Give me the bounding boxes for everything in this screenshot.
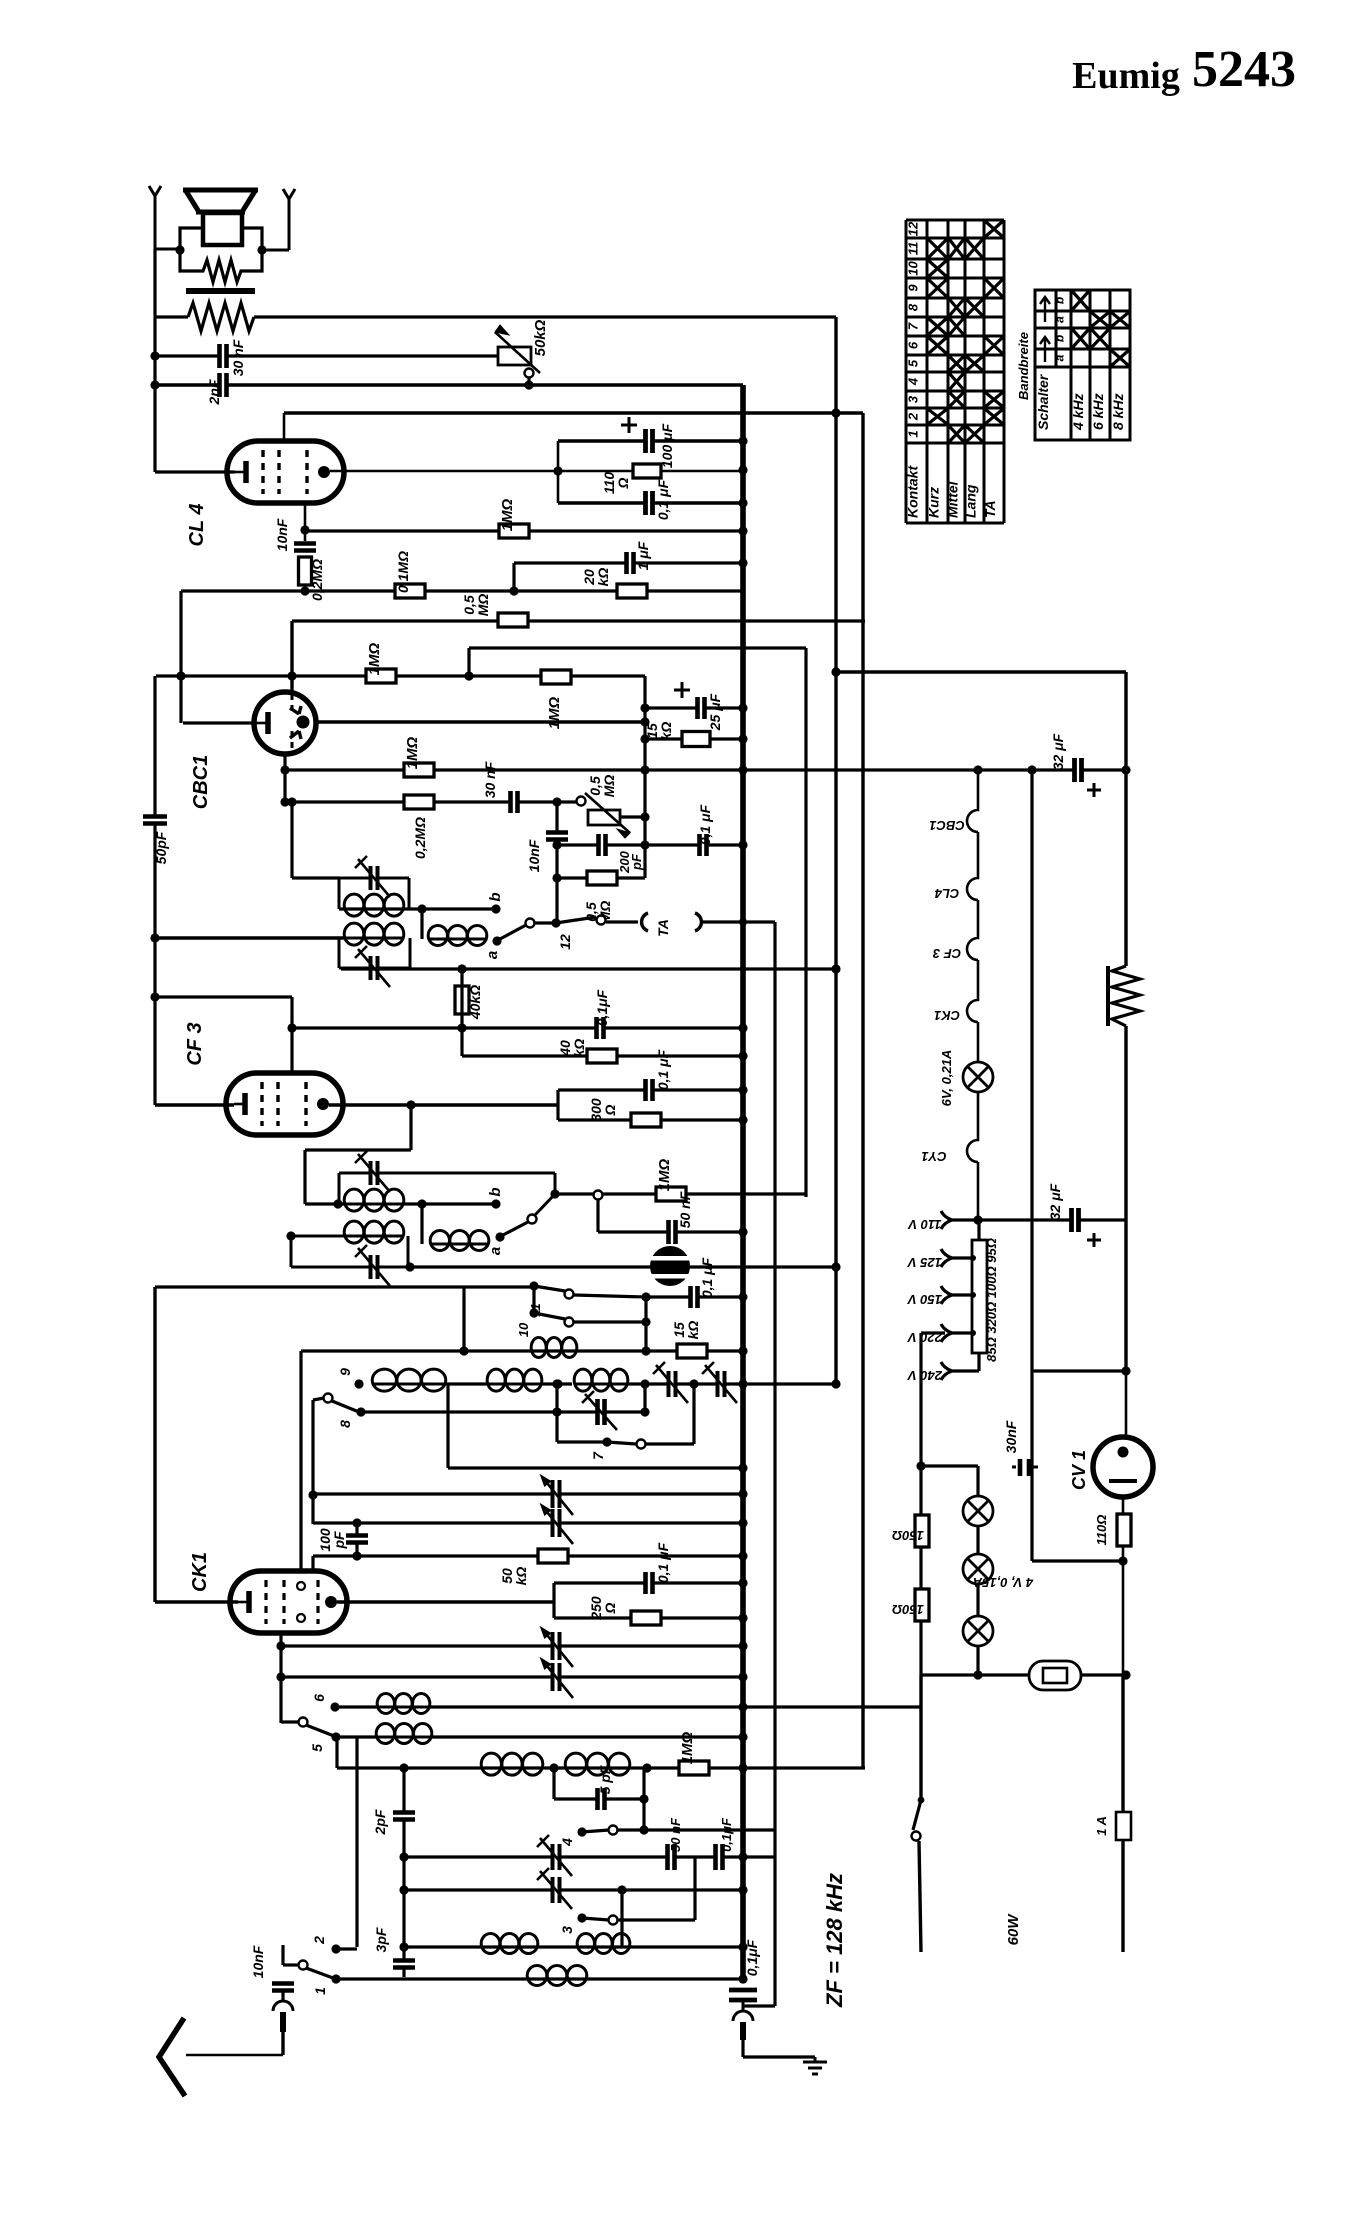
capacitor 0.1uF line1028 <box>596 1016 605 1040</box>
junction x557 y802 <box>552 797 561 806</box>
junction bus y1523 <box>738 1518 747 1527</box>
plus sign 25uF <box>674 682 690 698</box>
CF3 cathode network <box>556 1090 559 1120</box>
wire right rail <box>1124 770 1127 966</box>
wire 100uF branch <box>558 439 743 442</box>
wire antenna lead <box>281 2032 284 2055</box>
svg-text:4: 4 <box>906 377 921 386</box>
IF transformer T2 box <box>338 878 341 909</box>
wire x301 to CK1 <box>299 1351 302 1571</box>
wire grid line y531 <box>305 529 743 532</box>
IF transformer T2 secondary box <box>338 938 341 968</box>
wire line y1412 <box>361 1410 557 1413</box>
wire vertical rail x775 <box>773 922 776 2006</box>
wire mains lead right <box>1121 1840 1124 1952</box>
junction x645 y1412 <box>640 1407 649 1416</box>
variable capacitor tuning 4 plates <box>552 1662 561 1692</box>
wire x464 up <box>462 1287 465 1351</box>
wire left rail lower segment <box>153 1287 156 1602</box>
junction T3 sec left <box>286 1231 295 1240</box>
capacitor 5pF <box>597 1787 606 1811</box>
junction x1032 top <box>1027 765 1036 774</box>
svg-text:10nF: 10nF <box>274 518 290 551</box>
junction x694 y1384 <box>689 1379 698 1388</box>
svg-text:0,1MΩ: 0,1MΩ <box>395 551 411 593</box>
junction x646 y1351 <box>641 1346 650 1355</box>
padder plates <box>597 1398 606 1426</box>
contact 7 lever <box>557 1440 604 1443</box>
junction bus y922 <box>739 918 747 926</box>
svg-text:85Ω 320Ω 100Ω 95Ω: 85Ω 320Ω 100Ω 95Ω <box>984 1238 999 1362</box>
junction bus y770 <box>738 765 747 774</box>
wire x462 <box>460 969 463 1056</box>
svg-text:CK1: CK1 <box>189 1552 211 1592</box>
antenna symbol <box>159 2018 185 2096</box>
svg-text:7: 7 <box>906 322 921 330</box>
svg-text:110 V: 110 V <box>907 1217 941 1232</box>
wire line y1675 <box>921 1673 1126 1676</box>
capacitor 200pF <box>598 833 607 857</box>
junction right rail y1675 <box>1121 1670 1130 1679</box>
svg-text:0,2MΩ: 0,2MΩ <box>412 817 428 859</box>
wire line y1583 <box>554 1581 743 1584</box>
trimmer capacitor osc 2 plates <box>717 1370 726 1398</box>
svg-text:0,1μF: 0,1μF <box>719 1817 734 1852</box>
junction x404 y1768 <box>399 1763 408 1772</box>
svg-text:6: 6 <box>906 341 921 349</box>
svg-text:0,1 μF: 0,1 μF <box>655 479 671 520</box>
svg-text:Ω: Ω <box>602 1602 618 1614</box>
wire line y1979 <box>336 1977 743 1980</box>
junction T3 sec right <box>405 1262 414 1271</box>
contact 11 lever <box>529 1281 538 1290</box>
junction x555 y1194 <box>550 1189 559 1198</box>
resistor 50k osc grid <box>538 1549 568 1563</box>
wire CK1 plate line <box>337 1600 554 1603</box>
wire vertical rail x806 <box>804 648 807 1197</box>
svg-text:12: 12 <box>906 221 921 236</box>
fuse 1A <box>1116 1812 1131 1840</box>
svg-text:5: 5 <box>906 359 921 367</box>
switch lever a-b <box>500 925 526 939</box>
svg-text:b: b <box>487 892 504 901</box>
junction right rail y770 <box>1121 765 1130 774</box>
resistor 150 second <box>915 1589 929 1621</box>
svg-text:CF 3: CF 3 <box>184 1022 206 1065</box>
wire vertical x181 <box>179 591 182 723</box>
coil T3 primary <box>344 1203 404 1206</box>
contact b dot <box>491 904 500 913</box>
table Bandbreite <box>1035 290 1130 440</box>
svg-text:2pF: 2pF <box>372 1809 388 1835</box>
tube CF3 <box>226 1073 343 1135</box>
svg-text:50pF: 50pF <box>153 831 169 864</box>
ground symbol <box>803 2057 827 2074</box>
jack TA right <box>695 913 701 931</box>
junction speaker left <box>175 245 184 254</box>
junction bus y739 <box>738 734 747 743</box>
resistor 110 Ohm <box>633 464 661 478</box>
coil coupling CBC1 <box>428 938 487 941</box>
resistor 15k <box>682 732 710 747</box>
junction 5pF right <box>639 1794 648 1803</box>
speaker terminal right <box>283 189 295 199</box>
svg-text:3pF: 3pF <box>373 1927 389 1952</box>
junction bus y563 <box>738 558 747 567</box>
svg-text:MΩ: MΩ <box>475 594 491 617</box>
svg-text:kΩ: kΩ <box>513 1567 529 1586</box>
wire CF3 grid vertical <box>290 997 293 1073</box>
svg-text:30 nF: 30 nF <box>230 339 246 376</box>
svg-text:kΩ: kΩ <box>685 1321 701 1340</box>
svg-text:0,1μF: 0,1μF <box>594 989 610 1026</box>
svg-text:Mittel: Mittel <box>945 480 961 518</box>
svg-text:5: 5 <box>309 1744 325 1752</box>
contact a dot <box>492 936 501 945</box>
svg-text:1MΩ: 1MΩ <box>366 642 383 675</box>
resistor 40k second <box>587 1049 617 1063</box>
junction bus y531 <box>738 526 747 535</box>
coil coupling CF3 <box>430 1243 489 1246</box>
resistor 40k <box>455 986 469 1014</box>
lamp 6V 0.21A <box>963 1062 993 1092</box>
junction bus y1120 <box>738 1115 747 1124</box>
svg-text:4 kHz: 4 kHz <box>1070 393 1086 431</box>
wire 100pF stub <box>355 1523 358 1556</box>
IF transformer T3 secondary box <box>290 1236 293 1267</box>
capacitor 10nF antenna <box>271 1983 295 1992</box>
svg-text:CK1: CK1 <box>934 1008 960 1023</box>
capacitor 50pF <box>142 816 168 825</box>
junction x646 y1297 <box>641 1292 650 1301</box>
svg-text:a: a <box>1053 316 1067 323</box>
svg-text:Schalter: Schalter <box>1035 373 1051 430</box>
junction bus y1646 <box>738 1641 747 1650</box>
junction bus y1468 <box>738 1463 747 1472</box>
svg-text:3: 3 <box>906 395 921 403</box>
wire 50nF drop <box>596 1200 599 1232</box>
svg-text:0,1 μF: 0,1 μF <box>699 1257 715 1298</box>
resistor 0.1M <box>395 584 425 598</box>
jack TA left <box>642 913 648 931</box>
wire main ground bus <box>740 385 746 1983</box>
speaker LS cone <box>183 190 258 212</box>
trimmer capacitor antenna 1 plates <box>552 1843 561 1871</box>
coil antenna bottom A <box>481 1946 538 1949</box>
svg-text:6 kHz: 6 kHz <box>1090 393 1106 430</box>
coil LW oscillator <box>531 1350 577 1353</box>
tap 220 V <box>941 1324 952 1342</box>
junction x554 y1768 <box>549 1763 558 1772</box>
trimmer capacitor osc 1 plates <box>668 1370 677 1398</box>
wire line y648 <box>469 646 806 649</box>
wire line y672 <box>836 670 1126 673</box>
junction bus y1028 <box>738 1023 747 1032</box>
wire x645 osc <box>643 1384 646 1412</box>
wire to TA jack <box>606 920 638 923</box>
svg-text:kΩ: kΩ <box>595 568 611 587</box>
junction x404 y1857 <box>399 1852 408 1861</box>
svg-text:b: b <box>1053 335 1067 342</box>
junction bus y1768 <box>738 1763 747 1772</box>
contact 6 dot <box>330 1702 339 1711</box>
junction x836 y672 <box>831 667 840 676</box>
svg-text:8 kHz: 8 kHz <box>1110 393 1126 430</box>
coil T3 secondary <box>344 1235 404 1238</box>
wire line to ground bus top <box>155 383 743 386</box>
capacitor 0.1uF AF <box>699 833 708 857</box>
capacitor 0.1uF cathode <box>645 490 654 516</box>
svg-text:a: a <box>484 951 501 959</box>
wire coupling coil 2 drop <box>420 1204 423 1244</box>
junction x645 y739 <box>640 734 649 743</box>
junction x645 y722 <box>640 717 649 726</box>
svg-text:1MΩ: 1MΩ <box>679 1731 696 1764</box>
capacitor 1uF <box>626 551 635 575</box>
svg-text:150 V: 150 V <box>907 1292 942 1307</box>
wire mains switch lower <box>919 1841 921 1952</box>
wire line y1677 <box>281 1675 743 1678</box>
svg-text:Ω: Ω <box>615 477 631 489</box>
output transformer primary winding <box>188 303 254 331</box>
wire line y708 <box>645 706 743 709</box>
junction bus y1890 <box>738 1885 747 1894</box>
wire mains switch upper <box>919 1675 922 1800</box>
wire tone line 30nF <box>155 354 498 357</box>
speaker magnet <box>203 213 242 245</box>
wire x622 <box>620 1890 623 1947</box>
resistor 250 Ohm <box>631 1611 661 1625</box>
resistor 0.5M grid CBC1 <box>587 871 617 885</box>
resistor mains dropper <box>1106 966 1110 1026</box>
wire 0.1uF cathode branch <box>558 501 743 504</box>
svg-text:kΩ: kΩ <box>658 722 674 741</box>
tap 240 V <box>941 1362 952 1380</box>
wire CBC1 cathode <box>183 721 254 724</box>
resistor 150 Ohm upper <box>919 1466 922 1516</box>
resistor 300 Ohm <box>631 1113 661 1127</box>
svg-text:150Ω: 150Ω <box>892 1602 924 1617</box>
table Bandbreite arrows <box>1040 297 1050 322</box>
coil antenna input B <box>565 1767 630 1770</box>
trimmer capacitor T2 primary plates <box>370 865 379 891</box>
svg-text:1: 1 <box>906 430 921 437</box>
junction bus y1737 <box>738 1732 747 1741</box>
plus sign 32uF second <box>1087 1233 1101 1247</box>
capacitor 32uF first <box>1074 757 1083 783</box>
junction x836 y1267 <box>831 1262 840 1271</box>
junction bus y1857 <box>738 1852 747 1861</box>
wire x448 down <box>446 1384 449 1468</box>
junction y1371 <box>1121 1366 1130 1375</box>
svg-text:10: 10 <box>516 1322 531 1337</box>
contact pot wiper <box>525 369 534 378</box>
capacitor 30nF CV1 <box>1018 1459 1023 1476</box>
junction cathode network left <box>553 466 562 475</box>
trimmer capacitor T3 primary plates <box>370 1160 379 1186</box>
svg-text:4 V, 0,15A: 4 V, 0,15A <box>973 1575 1034 1590</box>
junction heater top <box>973 765 982 774</box>
wire volume wiper vertical x557 <box>555 802 558 922</box>
wire x404 vertical <box>402 1768 405 1977</box>
junction x921 y1466 <box>916 1461 925 1470</box>
wire 220V tap <box>921 1331 945 1334</box>
junction x645 y708 <box>640 703 649 712</box>
capacitor 25uF <box>697 696 706 720</box>
wire CL4 screen to AVC line <box>283 413 286 441</box>
junction x557 y1384 <box>552 1379 561 1388</box>
junction bus y1297 <box>739 1293 748 1302</box>
svg-text:1 A: 1 A <box>1094 1816 1109 1836</box>
capacitor 0.1uF bus series <box>728 1989 758 2001</box>
junction bus y1677 <box>738 1672 747 1681</box>
junction x557 y845 <box>552 840 561 849</box>
wire left rail upper <box>153 249 156 317</box>
svg-text:60W: 60W <box>1005 1913 1022 1946</box>
junction pot wiper to line <box>524 380 533 389</box>
svg-text:Lang: Lang <box>963 484 979 518</box>
svg-text:MΩ: MΩ <box>601 775 617 798</box>
junction 100pF bottom <box>352 1551 361 1560</box>
junction diode y802 <box>280 797 289 806</box>
wire CL4 plate line <box>330 470 634 473</box>
wire CF3 cathode <box>155 1103 234 1106</box>
output transformer core <box>186 288 255 294</box>
junction x645 y817 <box>640 812 649 821</box>
junction bus y1979 <box>738 1974 747 1983</box>
contact 8 lever <box>324 1394 333 1403</box>
junction x404 y1947 <box>399 1942 408 1951</box>
wire right rail 3 <box>1124 1220 1127 1371</box>
wire b line <box>339 907 496 910</box>
resistor 0.2M <box>404 795 434 809</box>
switch mains <box>918 1797 925 1804</box>
wire line y1890 <box>404 1888 743 1891</box>
capacitor 0.1uF CF3 cathode <box>645 1078 654 1102</box>
svg-text:CBC1: CBC1 <box>190 755 212 809</box>
resistor 1M coupling <box>541 670 571 684</box>
wire x557 osc <box>555 1384 558 1442</box>
svg-text:100 μF: 100 μF <box>659 423 675 468</box>
trimmer capacitor antenna 2 plates <box>552 1876 561 1904</box>
svg-text:2: 2 <box>906 412 921 421</box>
wire vertical rail x836 <box>834 317 837 1384</box>
svg-text:240 V: 240 V <box>907 1368 943 1383</box>
svg-text:Kurz: Kurz <box>926 487 942 518</box>
table Kontakt X marks <box>929 240 947 258</box>
junction x647 y1768 <box>642 1763 651 1772</box>
svg-text:1: 1 <box>312 1987 328 1995</box>
junction x644 y1830 <box>639 1825 648 1834</box>
capacitor 30nF tone <box>219 343 228 369</box>
junction y1561 <box>1118 1556 1127 1565</box>
coil antenna bottom B <box>577 1946 630 1949</box>
junction bus y1556 <box>738 1551 747 1560</box>
wire 5pF line <box>554 1797 644 1800</box>
wire line y969 <box>341 967 836 970</box>
svg-text:0,1 μF: 0,1 μF <box>655 1049 671 1090</box>
svg-text:9: 9 <box>337 1368 353 1376</box>
wire line y1232 <box>598 1230 743 1233</box>
trimmer capacitor T3 secondary plates <box>370 1254 379 1280</box>
resistor 1M diode load <box>404 763 434 777</box>
variable capacitor tuning 3 plates <box>552 1631 561 1661</box>
capacitor 10nF detector <box>545 832 569 841</box>
junction bus y1583 <box>738 1578 747 1587</box>
svg-text:Kontakt: Kontakt <box>905 465 921 518</box>
plus sign 100uF <box>621 417 637 433</box>
junction bus y1351 <box>738 1346 747 1355</box>
coil osc A <box>372 1383 446 1386</box>
wire TA to x775 <box>703 920 775 923</box>
wire right rail to fuse <box>1121 1675 1124 1812</box>
junction bus y1056 <box>738 1051 747 1060</box>
wire feed to IFT1 <box>290 802 293 878</box>
svg-text:a: a <box>487 1247 504 1255</box>
wire x695 <box>693 1857 696 1920</box>
wire CL4 grid stub <box>304 503 307 541</box>
scale lamp <box>1029 1661 1081 1690</box>
contact 1 lever <box>299 1961 308 1970</box>
junction bus y1384 <box>738 1379 747 1388</box>
junction y591 x514 <box>509 586 518 595</box>
contact a2 dot <box>495 1232 504 1241</box>
IF transformer T3 box <box>338 1173 341 1204</box>
wire CK1 cathode <box>155 1600 238 1603</box>
capacitor 30nF AVC <box>510 790 519 814</box>
wire x313 into CK1 <box>311 1556 314 1573</box>
junction x836 bottom <box>831 1379 840 1388</box>
wire x646 <box>644 1297 647 1351</box>
wire x357 down <box>355 1737 358 1947</box>
wire contacts 10-11 tie <box>532 1286 535 1313</box>
svg-text:50 nF: 50 nF <box>668 1817 683 1852</box>
trimmer capacitor T2 secondary plates <box>370 955 379 981</box>
wire B+ top rail <box>254 315 836 318</box>
junction grid y530 <box>300 525 309 534</box>
svg-text:0,1 μF: 0,1 μF <box>697 804 713 845</box>
wire line y1090 <box>558 1088 743 1091</box>
svg-text:32 μF: 32 μF <box>1050 733 1066 770</box>
wire line y1267 <box>408 1265 836 1268</box>
tube CK1 <box>230 1571 347 1633</box>
junction bus y845 <box>738 840 747 849</box>
resistor 20k <box>617 584 647 598</box>
wire line y1556 <box>313 1554 743 1557</box>
svg-text:8: 8 <box>906 303 921 311</box>
svg-text:TA: TA <box>655 919 671 937</box>
junction rail 30nF <box>150 351 159 360</box>
svg-text:6: 6 <box>311 1694 327 1702</box>
wire right rail 2 <box>1124 1026 1127 1220</box>
junction x281 y1677 <box>276 1672 285 1681</box>
wire line y1297 <box>646 1295 743 1298</box>
svg-text:9: 9 <box>906 284 921 292</box>
resistor 0.2M grid leak <box>299 557 312 585</box>
wire CL4 cathode <box>155 470 235 473</box>
junction x181 y676 <box>176 671 185 680</box>
resistor chain mains 85-320-100-95 <box>972 1240 987 1353</box>
wire contact3 to x695 <box>618 1918 695 1921</box>
svg-text:pF: pF <box>629 853 644 871</box>
tap 150 V <box>941 1286 952 1304</box>
capacitor 0.1uF antenna <box>715 1843 724 1871</box>
wire x281 below CK1 <box>279 1633 282 1723</box>
lamp dial 2 <box>963 1554 993 1584</box>
svg-text:CL 4: CL 4 <box>186 504 208 547</box>
wire x1032 long <box>1030 770 1033 1561</box>
resistor 1M CBC1 grid <box>366 669 396 683</box>
